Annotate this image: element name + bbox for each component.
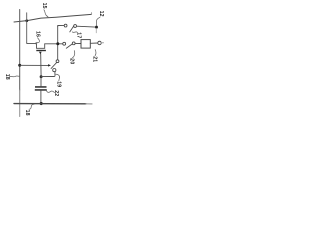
switch S3 bottom contact circle [53, 69, 56, 72]
switch S2 right contact circle [72, 42, 75, 45]
wire top supply rail (slanted) [14, 14, 91, 22]
wire switch S1 to node [77, 25, 96, 28]
wire left rail lower extension [19, 104, 21, 117]
wire faint stub below right node [95, 29, 97, 33]
wire from junction to lower switch [41, 72, 55, 77]
wire second vertical drop [26, 13, 28, 43]
svg-text:15: 15 [41, 3, 47, 9]
capacitor C1 bottom plate [35, 89, 47, 91]
label 19 leader [56, 74, 60, 81]
label 18 bottom leader [29, 104, 34, 109]
switch S1 left feed wire [58, 25, 64, 28]
wire S2 to box [75, 42, 81, 44]
node junction dot emitter/capacitor [40, 75, 43, 78]
wire left rail lower part [19, 90, 21, 104]
wire top rail end hook [90, 13, 92, 15]
label 16 leader [36, 38, 40, 44]
node junction dot trunk crossing [56, 42, 59, 45]
terminal circle right [98, 41, 101, 44]
svg-text:19: 19 [56, 81, 62, 87]
capacitor C1 top lead [40, 77, 42, 87]
switch S2 blade [66, 44, 72, 49]
wire bottom rail fading tip [86, 103, 92, 105]
wire left vertical rail [19, 10, 21, 91]
wire bottom ground rail [14, 103, 86, 105]
label 20 leader [72, 51, 75, 59]
svg-text:16: 16 [34, 31, 40, 37]
switch S3 blade [51, 62, 57, 68]
transistor Q1 emitter lead wire [40, 54, 42, 77]
switch S2 left contact circle [63, 42, 66, 45]
label 17 leader [72, 31, 77, 34]
wire right stub fading [101, 42, 103, 44]
node junction dot left rail mid [18, 64, 21, 67]
svg-text:20: 20 [68, 58, 74, 64]
switch S1 right contact circle [74, 25, 77, 28]
svg-text:18: 18 [24, 110, 30, 116]
capacitor C1 top plate [35, 86, 47, 88]
switch S3 top contact circle [56, 60, 59, 63]
switch S1 blade [70, 26, 74, 32]
label 12 leader [96, 17, 100, 26]
wire box right lead [90, 42, 98, 44]
svg-text:22: 22 [53, 90, 59, 96]
switch S1 left contact circle [64, 24, 67, 27]
label 18 left leader [9, 75, 19, 78]
wire center trunk vertical [57, 26, 59, 60]
svg-text:18: 18 [4, 74, 10, 80]
label 21 leader [94, 50, 97, 56]
svg-text:17: 17 [75, 32, 81, 38]
wire actuator arrow line [20, 64, 49, 66]
transistor Q1 base bar [36, 50, 46, 51]
node junction dot bottom rail [40, 102, 43, 105]
capacitor C1 bottom lead [40, 91, 42, 104]
transistor Q1 emitter arrow [39, 52, 42, 55]
node junction dot on top rail [25, 19, 28, 22]
transistor Q1 lead path (left lead, dip, right lead) [27, 43, 63, 48]
label 22 leader [46, 90, 54, 92]
component box U1 [81, 40, 90, 49]
wire actuator arrowhead [48, 64, 51, 67]
label 15 leader [44, 10, 48, 17]
svg-text:12: 12 [98, 11, 104, 17]
node junction dot right [95, 26, 98, 29]
svg-text:21: 21 [91, 56, 97, 62]
